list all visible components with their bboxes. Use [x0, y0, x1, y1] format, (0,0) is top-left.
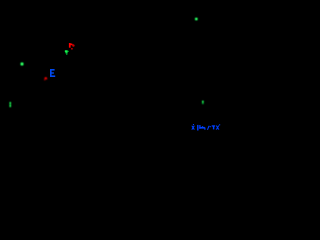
K/X glyph	[216, 126, 220, 130]
green marker dot upper-right	[195, 18, 198, 21]
green blob below F	[65, 50, 69, 55]
green marker dot left	[20, 62, 23, 65]
X glyph with dot	[193, 124, 194, 125]
slash	[207, 126, 210, 130]
red blob left of E	[44, 77, 47, 80]
green dash lower-left	[9, 102, 11, 107]
red F-like glyph	[69, 43, 75, 50]
green dash right	[202, 101, 204, 105]
7 glyph	[212, 125, 215, 126]
blue watermark text bottom-right	[191, 124, 220, 131]
f tall stroke	[197, 125, 198, 131]
blue letter E	[50, 69, 55, 77]
dash	[210, 126, 211, 127]
cursive word	[199, 125, 200, 129]
